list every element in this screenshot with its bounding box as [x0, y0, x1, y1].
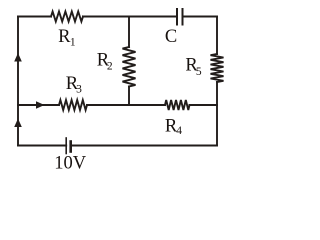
svg-text:4: 4	[176, 125, 182, 137]
svg-text:C: C	[165, 27, 177, 47]
label R5	[185, 56, 202, 78]
wire: top middle segment	[83, 16, 177, 18]
resistor R5	[211, 54, 224, 82]
svg-text:2: 2	[107, 60, 113, 72]
current arrow right (middle wire)	[36, 101, 45, 109]
svg-text:1: 1	[70, 37, 76, 49]
wire: R2 branch lower stub	[128, 87, 130, 106]
wire: bottom-right segment	[71, 145, 218, 147]
wire: left vertical branch	[17, 17, 19, 146]
wire: right vertical upper segment	[216, 17, 218, 55]
resistor R3	[59, 100, 87, 110]
wire: bottom-left segment	[18, 145, 66, 147]
current arrow up (left wire, upper)	[14, 53, 22, 62]
resistor R4	[165, 100, 190, 110]
label R4	[165, 116, 182, 137]
wire: right vertical lower segment	[216, 82, 218, 146]
label R3	[66, 74, 82, 96]
wire: middle horizontal left segment	[18, 104, 59, 106]
wire: middle horizontal center segment	[87, 104, 165, 106]
svg-text:10V: 10V	[54, 153, 86, 173]
resistor R1	[51, 12, 83, 22]
wire: top-right segment	[183, 16, 218, 18]
capacitor C	[177, 9, 183, 25]
wire: middle horizontal right segment	[190, 104, 218, 106]
resistor R2	[123, 47, 136, 87]
battery 10V	[66, 138, 71, 154]
svg-text:3: 3	[76, 84, 82, 96]
wire: top-left segment	[18, 16, 51, 18]
wire: R2 branch upper stub	[128, 17, 130, 48]
current arrow up (left wire, lower)	[14, 119, 22, 128]
label R2	[97, 50, 113, 72]
label R1	[58, 27, 76, 48]
svg-text:5: 5	[196, 66, 202, 78]
